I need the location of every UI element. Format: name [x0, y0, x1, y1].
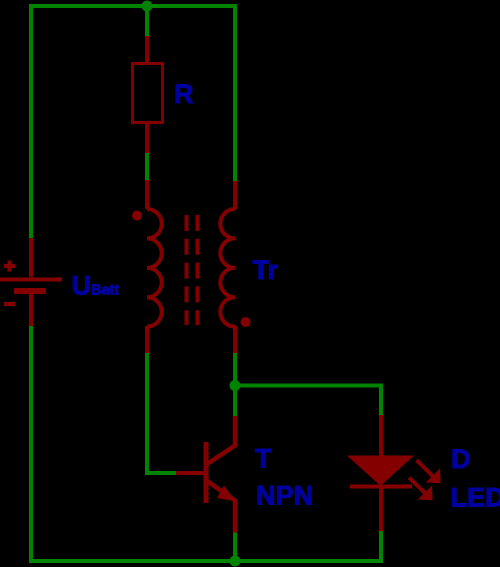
wire right winding to collector node	[233, 353, 237, 386]
battery BT1 pin top	[29, 238, 33, 277]
LED D arrow 1	[417, 460, 434, 477]
svg-text:R: R	[174, 79, 194, 109]
battery minus sign	[4, 302, 15, 306]
svg-text:D: D	[451, 444, 471, 474]
wire bottom rail	[29, 559, 381, 563]
LED D cathode bar	[350, 485, 412, 489]
wire collector node down	[233, 386, 237, 417]
node junction top	[142, 1, 153, 12]
transformer Tr core dashed lines	[187, 215, 198, 325]
wire emitter to bottom rail	[233, 533, 237, 562]
wire R to left winding	[145, 153, 149, 180]
LED D anode lead	[379, 415, 383, 458]
node junction emitter bottom	[230, 556, 241, 567]
wire top rail	[29, 4, 237, 8]
LED D cathode lead	[379, 488, 383, 531]
wire LED anode vertical	[379, 384, 383, 416]
transformer Tr polarity dot left	[132, 211, 142, 221]
transformer Tr right winding lead bottom	[233, 326, 237, 353]
resistor R pin bottom	[145, 124, 149, 153]
transistor T base bar	[204, 442, 209, 503]
transformer Tr right winding lead top	[233, 181, 237, 209]
resistor R body	[133, 64, 163, 123]
LED D triangle	[350, 457, 412, 485]
transistor T collector	[207, 416, 235, 464]
transistor T emitter arrow head	[217, 486, 236, 502]
battery pin bottom	[29, 293, 33, 326]
wire base horizontal	[145, 471, 176, 475]
transformer Tr right winding	[220, 209, 235, 327]
wire left winding down to base	[145, 353, 149, 475]
battery plate negative	[14, 288, 46, 294]
battery plus sign	[4, 261, 15, 272]
transistor T emitter	[207, 481, 235, 533]
svg-text:NPN: NPN	[256, 481, 313, 511]
wire left rail lower	[29, 326, 33, 563]
transformer Tr left winding lead top	[145, 180, 149, 209]
wire right rail to right winding	[233, 4, 237, 181]
wire left rail upper	[29, 4, 33, 238]
svg-text:LED: LED	[451, 482, 500, 512]
wire top to R	[145, 6, 149, 36]
battery plate positive	[0, 278, 62, 282]
resistor R pin top	[145, 36, 149, 62]
LED D arrow 2	[409, 478, 425, 494]
svg-text:Tr: Tr	[253, 255, 279, 285]
node junction collector	[230, 380, 241, 391]
transistor T base pin	[176, 471, 204, 475]
transformer Tr left winding	[147, 209, 162, 327]
wire collector node to LED	[235, 384, 383, 388]
transformer Tr polarity dot right	[241, 317, 251, 327]
svg-text:T: T	[255, 443, 272, 473]
transformer Tr left winding lead bottom	[145, 326, 149, 353]
wire LED cathode to bottom rail	[379, 531, 383, 563]
